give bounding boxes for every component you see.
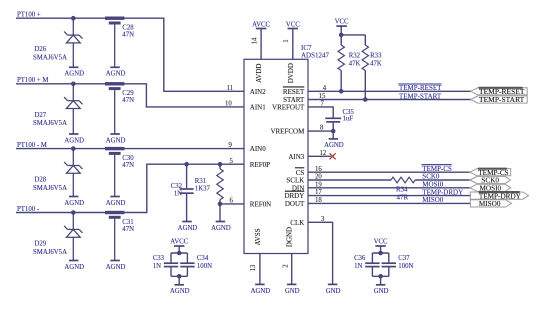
- svg-text:47N: 47N: [122, 32, 134, 39]
- svg-text:TEMP-CS: TEMP-CS: [422, 165, 452, 173]
- svg-text:AGND: AGND: [170, 288, 190, 295]
- svg-text:VCC: VCC: [374, 238, 388, 245]
- svg-text:1uF: 1uF: [343, 116, 354, 123]
- svg-text:9: 9: [229, 142, 233, 149]
- svg-text:DGND: DGND: [286, 227, 294, 247]
- svg-text:AGND: AGND: [106, 200, 126, 207]
- svg-text:SMAJ6V5A: SMAJ6V5A: [33, 55, 67, 62]
- svg-text:1K37: 1K37: [195, 185, 211, 192]
- svg-text:AIN2: AIN2: [250, 88, 266, 96]
- svg-text:47N: 47N: [122, 162, 134, 169]
- svg-text:14: 14: [251, 37, 258, 44]
- svg-text:5: 5: [230, 158, 234, 165]
- svg-text:100N: 100N: [197, 263, 212, 270]
- svg-text:REF0P: REF0P: [250, 161, 270, 169]
- svg-text:D26: D26: [35, 46, 47, 53]
- svg-text:C37: C37: [398, 255, 410, 262]
- svg-text:1N: 1N: [354, 263, 362, 270]
- svg-text:1N: 1N: [174, 190, 182, 197]
- svg-text:TEMP-START: TEMP-START: [399, 93, 442, 101]
- svg-text:R33: R33: [370, 53, 382, 60]
- svg-text:GND: GND: [326, 288, 341, 295]
- svg-text:AIN1: AIN1: [250, 104, 266, 112]
- svg-text:SCLK: SCLK: [286, 177, 304, 185]
- svg-text:R32: R32: [349, 53, 361, 60]
- svg-text:RESET: RESET: [283, 88, 305, 96]
- svg-text:DRDY: DRDY: [284, 192, 304, 200]
- svg-text:MISO0: MISO0: [479, 200, 501, 208]
- svg-text:C28: C28: [122, 25, 134, 32]
- svg-text:TEMP-DRDY: TEMP-DRDY: [479, 192, 522, 200]
- svg-text:GND: GND: [374, 288, 389, 295]
- svg-text:AGND: AGND: [106, 71, 126, 78]
- svg-text:SCK0: SCK0: [481, 177, 499, 185]
- svg-text:AGND: AGND: [106, 264, 126, 271]
- svg-text:AGND: AGND: [64, 137, 84, 144]
- svg-text:AIN3: AIN3: [288, 153, 304, 161]
- svg-text:AIN0: AIN0: [250, 145, 266, 153]
- svg-text:AGND: AGND: [211, 225, 231, 232]
- svg-text:VREFCOM: VREFCOM: [270, 128, 305, 136]
- svg-text:MISO0: MISO0: [422, 196, 444, 204]
- svg-text:AVCC: AVCC: [170, 238, 188, 245]
- svg-text:AVCC: AVCC: [252, 21, 270, 28]
- svg-text:AGND: AGND: [64, 200, 84, 207]
- svg-text:47R: 47R: [397, 193, 409, 201]
- svg-text:D28: D28: [35, 177, 47, 184]
- svg-text:DVDD: DVDD: [287, 63, 295, 83]
- svg-text:DOUT: DOUT: [285, 200, 305, 208]
- svg-text:R34: R34: [396, 186, 408, 194]
- svg-text:AGND: AGND: [64, 264, 84, 271]
- svg-text:D29: D29: [35, 241, 47, 248]
- svg-text:TEMP-START: TEMP-START: [479, 95, 525, 104]
- svg-text:13: 13: [250, 264, 257, 271]
- svg-text:MOSI0: MOSI0: [422, 181, 444, 189]
- svg-text:AGND: AGND: [251, 288, 271, 295]
- svg-text:TEMP-DRDY: TEMP-DRDY: [422, 188, 463, 196]
- svg-text:47K: 47K: [370, 61, 382, 68]
- svg-text:VCC: VCC: [286, 21, 300, 28]
- svg-text:C31: C31: [122, 219, 133, 226]
- svg-text:SMAJ6V5A: SMAJ6V5A: [33, 249, 67, 256]
- svg-text:100N: 100N: [398, 263, 413, 270]
- svg-text:47N: 47N: [122, 97, 134, 104]
- svg-text:AGND: AGND: [106, 137, 126, 144]
- svg-text:C32: C32: [171, 183, 183, 190]
- svg-text:47K: 47K: [349, 61, 361, 68]
- svg-text:11: 11: [227, 85, 234, 92]
- svg-text:6: 6: [230, 198, 234, 205]
- svg-text:CS: CS: [296, 169, 305, 177]
- svg-text:GND: GND: [285, 288, 300, 295]
- svg-text:CLK: CLK: [290, 219, 304, 227]
- svg-text:1: 1: [283, 39, 290, 42]
- svg-text:REF0N: REF0N: [250, 201, 271, 209]
- svg-text:D27: D27: [35, 112, 47, 119]
- svg-text:AVDD: AVDD: [255, 64, 263, 83]
- svg-text:SMAJ6V5A: SMAJ6V5A: [33, 120, 67, 127]
- svg-text:10: 10: [225, 101, 232, 108]
- svg-text:AGND: AGND: [324, 142, 344, 149]
- svg-text:ADS1247: ADS1247: [301, 52, 330, 60]
- svg-text:AGND: AGND: [178, 225, 198, 232]
- svg-text:VREFOUT: VREFOUT: [272, 104, 305, 112]
- svg-text:1N: 1N: [153, 263, 161, 270]
- svg-text:TEMP-RESET: TEMP-RESET: [399, 84, 442, 92]
- svg-text:47N: 47N: [122, 226, 134, 233]
- svg-text:R31: R31: [195, 178, 206, 185]
- svg-text:SCK0: SCK0: [422, 173, 440, 181]
- svg-text:C29: C29: [122, 90, 134, 97]
- svg-text:C33: C33: [153, 255, 165, 262]
- svg-text:2: 2: [282, 264, 289, 268]
- svg-text:SMAJ6V5A: SMAJ6V5A: [33, 185, 67, 192]
- svg-text:VCC: VCC: [335, 19, 349, 26]
- svg-text:C36: C36: [354, 255, 366, 262]
- svg-text:C30: C30: [122, 155, 134, 162]
- svg-text:AVSS: AVSS: [254, 228, 262, 245]
- svg-text:C34: C34: [197, 255, 209, 262]
- svg-text:AGND: AGND: [64, 71, 84, 78]
- svg-text:TEMP-CS: TEMP-CS: [478, 169, 508, 177]
